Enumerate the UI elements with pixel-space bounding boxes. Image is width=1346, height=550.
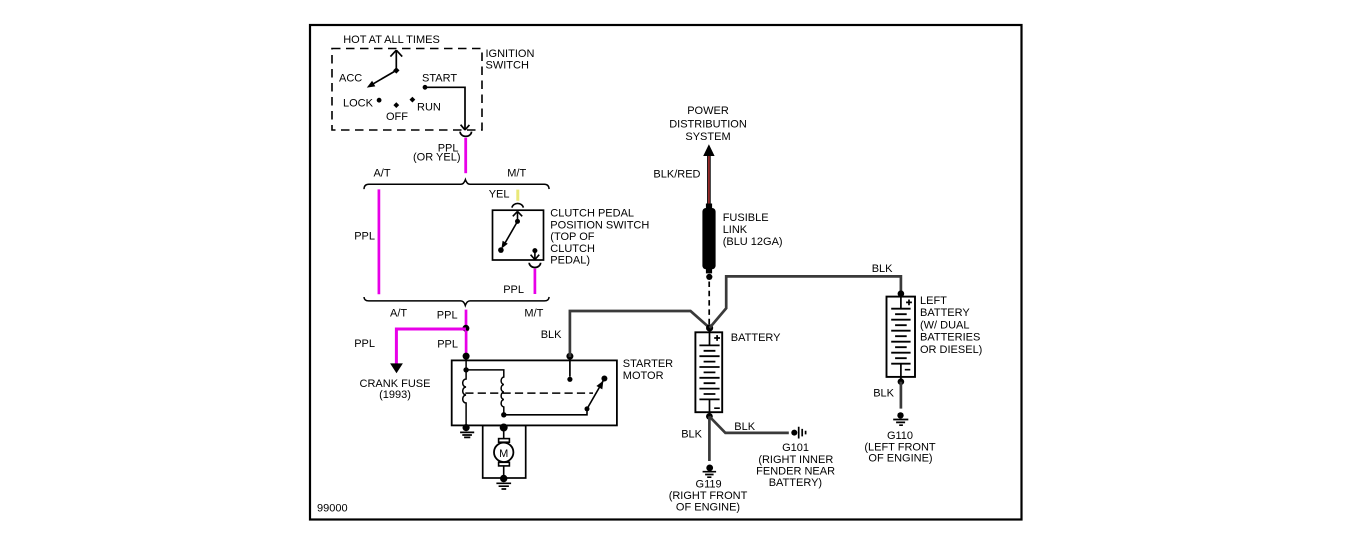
wire START output inside ignition switch (425, 87, 469, 130)
svg-text:A/T: A/T (390, 307, 407, 319)
label BLK left battery bottom (873, 388, 894, 400)
ignition position ACC (339, 73, 362, 85)
clutch switch input arrow (513, 211, 522, 221)
svg-text:OFF: OFF (386, 111, 408, 123)
svg-text:M/T: M/T (507, 168, 526, 180)
wire PPL A/T branch (378, 189, 381, 294)
svg-text:(BLU 12GA): (BLU 12GA) (723, 236, 783, 248)
svg-text:OF ENGINE): OF ENGINE) (676, 502, 740, 514)
brace splitting A/T and M/T (364, 180, 549, 190)
wire PPL merged (465, 310, 468, 327)
svg-text:LINK: LINK (723, 224, 748, 236)
dashed fusible link lead (708, 282, 710, 325)
wire BLK battery to G119 (708, 416, 711, 461)
ignition switch label (486, 48, 535, 71)
svg-text:BLK: BLK (541, 329, 562, 341)
svg-text:BATTERIES: BATTERIES (920, 332, 980, 344)
svg-text:HOT AT ALL TIMES: HOT AT ALL TIMES (343, 34, 440, 46)
solenoid pull-in coil (463, 356, 466, 427)
label M/T (507, 168, 526, 180)
connector into clutch pedal switch (512, 203, 523, 207)
svg-text:YEL: YEL (489, 189, 510, 201)
svg-text:M/T: M/T (524, 307, 543, 319)
clutch pedal position switch label (550, 208, 649, 267)
node B terminal (566, 353, 573, 360)
border frame (310, 25, 1022, 520)
svg-text:SWITCH: SWITCH (486, 59, 529, 71)
fusible link (702, 204, 715, 281)
svg-text:G101: G101 (782, 442, 809, 454)
svg-text:STARTER: STARTER (623, 358, 673, 370)
svg-text:BATTERY): BATTERY) (769, 477, 822, 489)
label BLK starter (541, 329, 562, 341)
svg-text:(RIGHT FRONT: (RIGHT FRONT (669, 490, 748, 502)
ignition switch dashed box (332, 49, 482, 131)
svg-text:MOTOR: MOTOR (623, 370, 664, 382)
svg-text:FUSIBLE: FUSIBLE (723, 212, 769, 224)
wire PPL from clutch switch (534, 269, 537, 294)
svg-text:G110: G110 (887, 430, 913, 442)
node S terminal (463, 353, 470, 360)
solenoid actuating dashed link (465, 392, 593, 394)
B terminal inner wire (567, 356, 572, 382)
svg-text:BATTERY: BATTERY (920, 307, 970, 319)
svg-text:(OR YEL): (OR YEL) (413, 152, 460, 164)
ignition position OFF (386, 102, 408, 123)
label PPL (OR YEL) (413, 143, 460, 164)
wire YEL M/T branch (516, 190, 519, 201)
left battery label (920, 295, 982, 356)
svg-text:BLK: BLK (681, 428, 702, 440)
battery cells (699, 328, 720, 416)
wire PPL from ignition switch (464, 138, 467, 173)
svg-text:PEDAL): PEDAL) (550, 255, 590, 267)
diagram number 99000 (317, 502, 348, 514)
svg-text:OF ENGINE): OF ENGINE) (868, 453, 932, 465)
node HOT AT ALL TIMES (343, 34, 440, 46)
svg-text:BLK: BLK (872, 263, 893, 275)
svg-text:START: START (422, 73, 457, 85)
coil to contact wire (501, 411, 587, 417)
left battery box (887, 297, 916, 377)
ignition switch wiper lever (367, 67, 400, 87)
svg-text:ACC: ACC (339, 73, 362, 85)
svg-text:POWER: POWER (687, 105, 729, 117)
solenoid hold-in coil (466, 370, 504, 415)
svg-text:PPL: PPL (437, 338, 458, 350)
ground G101 (791, 427, 805, 439)
svg-text:DISTRIBUTION: DISTRIBUTION (669, 118, 747, 130)
motor housing box (483, 424, 526, 479)
motor ground (496, 475, 511, 489)
svg-text:CRANK FUSE: CRANK FUSE (360, 378, 431, 390)
starter motor label (623, 358, 673, 382)
svg-text:LEFT: LEFT (920, 295, 947, 307)
brace merging A/T and M/T (364, 297, 549, 306)
wire BLK/RED (707, 155, 711, 204)
clutch pedal position switch box (493, 210, 544, 260)
arrow to power distribution (703, 144, 714, 156)
battery positive junction (706, 324, 713, 331)
ignition position START contact (422, 73, 457, 90)
svg-text:BATTERY: BATTERY (731, 332, 781, 344)
svg-text:(LEFT FRONT: (LEFT FRONT (864, 441, 936, 453)
svg-text:(W/ DUAL: (W/ DUAL (920, 319, 970, 331)
starter case ground (460, 424, 474, 437)
label YEL (489, 189, 510, 201)
wire BLK left battery to G110 (900, 382, 903, 409)
svg-text:SYSTEM: SYSTEM (685, 131, 730, 143)
svg-text:LOCK: LOCK (343, 98, 374, 110)
label BLK to G119 (681, 428, 702, 440)
crank fuse label (360, 378, 431, 401)
wire PPL to crank fuse (390, 329, 466, 373)
label BLK to G101 (734, 421, 755, 433)
svg-text:CLUTCH PEDAL: CLUTCH PEDAL (550, 208, 634, 220)
svg-text:99000: 99000 (317, 502, 348, 514)
ground G110 (893, 412, 908, 425)
label PPL above brace (503, 284, 524, 296)
wire BLK to left battery (710, 276, 901, 328)
svg-text:BLK: BLK (734, 421, 755, 433)
wire BLK starter to battery (570, 311, 710, 357)
battery box (695, 332, 722, 412)
label PPL above starter (437, 338, 458, 350)
label A/T (373, 168, 390, 180)
starter contact switch (585, 376, 608, 412)
left battery negative terminal (898, 378, 905, 385)
label PPL crank branch (354, 338, 375, 350)
junction splice (462, 325, 469, 332)
svg-text:BLK: BLK (873, 388, 894, 400)
label BLK/RED (653, 168, 700, 180)
svg-text:PPL: PPL (503, 284, 524, 296)
ignition switch feed arrow to HOT (390, 50, 402, 70)
svg-text:RUN: RUN (417, 102, 441, 114)
ground G119 (703, 465, 717, 478)
battery label (731, 332, 781, 344)
ignition position LOCK (343, 98, 382, 110)
label G101 (756, 442, 835, 489)
wire PPL into starter (465, 331, 468, 356)
svg-text:PPL: PPL (354, 338, 375, 350)
svg-text:G119: G119 (696, 478, 722, 490)
battery negative terminal (706, 413, 713, 420)
ignition position RUN (410, 97, 441, 114)
svg-text:(RIGHT INNER: (RIGHT INNER (758, 454, 833, 466)
clutch switch output contact and arrow (531, 248, 540, 260)
svg-text:IGNITION: IGNITION (486, 48, 535, 60)
connector below clutch pedal switch (529, 263, 540, 268)
svg-text:PPL: PPL (437, 309, 458, 321)
label G119 (669, 478, 748, 513)
label A/T lower (390, 307, 407, 319)
svg-text:M: M (499, 448, 508, 460)
svg-text:(1993): (1993) (379, 389, 411, 401)
svg-text:POSITION SWITCH: POSITION SWITCH (550, 219, 649, 231)
svg-text:OR DIESEL): OR DIESEL) (920, 344, 982, 356)
left battery cells (891, 294, 912, 381)
left battery positive terminal (898, 290, 905, 297)
label PPL on A/T branch (354, 231, 375, 243)
motor M armature (494, 428, 513, 477)
svg-text:PPL: PPL (354, 231, 375, 243)
fusible link label (723, 212, 783, 248)
label M/T lower (524, 307, 543, 319)
label PPL below brace (437, 309, 458, 321)
label BLK left battery top (872, 263, 893, 275)
svg-text:A/T: A/T (373, 168, 390, 180)
clutch switch lever (498, 219, 520, 253)
label G110 (864, 430, 936, 465)
svg-text:CLUTCH: CLUTCH (550, 243, 595, 255)
node POWER DISTRIBUTION SYSTEM (669, 105, 747, 143)
starter motor box (452, 360, 617, 425)
svg-text:FENDER NEAR: FENDER NEAR (756, 465, 835, 477)
svg-text:(TOP OF: (TOP OF (550, 231, 594, 243)
svg-text:BLK/RED: BLK/RED (653, 168, 700, 180)
connector at ignition switch output (460, 132, 471, 137)
wire BLK battery to G101 (709, 416, 788, 433)
coil tap junction (463, 367, 468, 372)
